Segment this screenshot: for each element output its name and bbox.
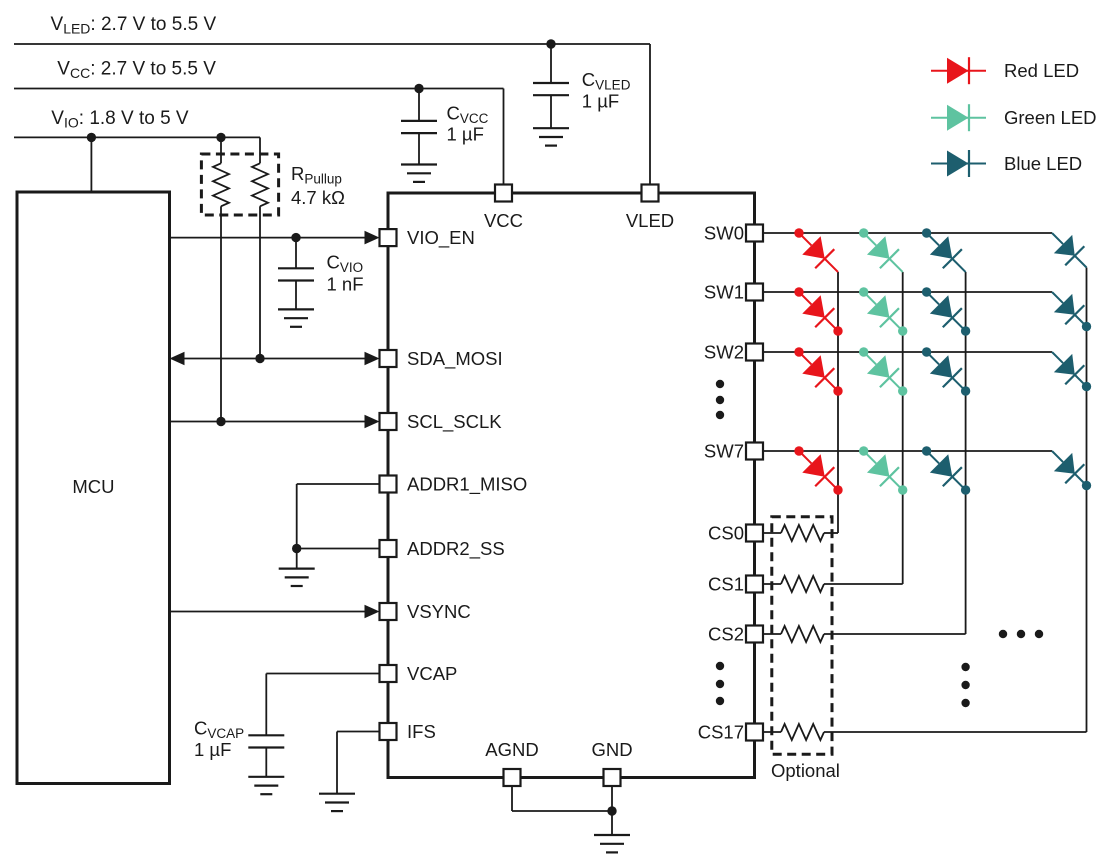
net VIO rail wire: [14, 136, 260, 138]
node SW2 green cathode: [898, 386, 907, 395]
wire VIO_EN from MCU: [170, 237, 366, 239]
svg-text:CS1: CS1: [708, 574, 744, 595]
svg-text:Optional: Optional: [771, 760, 840, 781]
svg-text:SW7: SW7: [704, 441, 744, 462]
resistor CS0: [781, 525, 824, 541]
svg-text:SW0: SW0: [704, 223, 744, 244]
pin VSYNC: [380, 603, 397, 620]
green LED row SW1: [854, 282, 912, 340]
node SW1 blue anode: [922, 287, 931, 296]
pin CS2: [746, 626, 763, 643]
node R2 SDA junction: [255, 354, 264, 363]
green LED row SW2: [854, 342, 912, 400]
node SW0 blue anode: [922, 228, 931, 237]
dots SW2 to SW7 ellipsis: [716, 380, 724, 388]
wire CS1 to resistor: [763, 583, 781, 585]
svg-text:1 nF: 1 nF: [327, 274, 364, 295]
capacitor CVLED lead: [550, 44, 552, 83]
wire SW1 row: [763, 291, 1052, 293]
resistor CS2: [781, 626, 824, 642]
capacitor CVCC lead: [418, 89, 420, 121]
wire VCAP down to CVCAP: [265, 674, 267, 736]
ground below CVCC: [401, 163, 437, 165]
svg-text:RPullup: RPullup: [291, 163, 342, 187]
red LED row SW0: [789, 223, 847, 281]
pin SCL_SCLK: [380, 413, 397, 430]
node SW1 far blue cathode: [1082, 322, 1091, 331]
wire SDA_MOSI bidirectional: [184, 358, 365, 360]
resistor R2 pullup lead top: [259, 137, 261, 163]
node SW1 green cathode: [898, 326, 907, 335]
wire VLED rail to VLED pin: [649, 44, 651, 185]
wire resistor CS0 to column: [824, 532, 838, 534]
wire IFS down to ground: [336, 732, 338, 794]
wire R2 to SDA_MOSI: [259, 206, 261, 358]
node SW7 blue cathode: [961, 485, 970, 494]
wire resistor CS1 to column: [824, 583, 903, 585]
wire CS2 to resistor: [763, 633, 781, 635]
wire VIO rail to MCU: [90, 137, 92, 192]
ground below CVIO: [278, 308, 314, 310]
node SW0 green anode: [859, 228, 868, 237]
svg-text:Red LED: Red LED: [1004, 60, 1079, 81]
svg-text:SW1: SW1: [704, 282, 744, 303]
wire CS0 to resistor: [763, 532, 781, 534]
ground below IFS: [319, 793, 355, 795]
wire ADDR junction to ground: [296, 549, 298, 569]
pin GND: [604, 769, 621, 786]
ground below GND: [594, 834, 630, 836]
arrow into VIO_EN: [365, 231, 380, 245]
wire CS17 to resistor: [763, 731, 781, 733]
node SW2 blue anode: [922, 347, 931, 356]
svg-text:ADDR2_SS: ADDR2_SS: [407, 538, 505, 560]
svg-text:CVIO: CVIO: [327, 252, 364, 276]
node SW0 red anode: [794, 228, 803, 237]
wire ADDR2_SS: [297, 548, 380, 550]
svg-text:CS0: CS0: [708, 523, 744, 544]
net VLED rail wire: [14, 43, 650, 45]
wire resistor CS2 to column: [824, 633, 966, 635]
capacitor CVCAP lead lower: [265, 748, 267, 777]
pin CS17: [746, 724, 763, 741]
svg-text:VCAP: VCAP: [407, 663, 457, 684]
node SW2 red cathode: [833, 386, 842, 395]
wire VCC rail to VCC pin: [503, 89, 505, 185]
capacitor CVIO lead lower: [295, 281, 297, 310]
svg-text:SDA_MOSI: SDA_MOSI: [407, 348, 503, 370]
dots below blue column ellipsis: [961, 663, 969, 671]
svg-text:CVLED: CVLED: [582, 69, 631, 93]
svg-text:VLED: VLED: [626, 210, 674, 231]
svg-text:VLED: 2.7 V to 5.5 V: VLED: 2.7 V to 5.5 V: [51, 14, 217, 37]
node SW2 blue cathode: [961, 386, 970, 395]
wire VSYNC: [170, 611, 366, 613]
pin SDA_MOSI: [380, 350, 397, 367]
blue LED row SW7: [917, 441, 975, 499]
svg-text:AGND: AGND: [485, 739, 538, 760]
svg-text:CS2: CS2: [708, 624, 744, 645]
wire AGND to GND net: [512, 810, 612, 812]
svg-text:VCC: 2.7 V to 5.5 V: VCC: 2.7 V to 5.5 V: [57, 59, 216, 82]
wire SW0 row: [763, 232, 1052, 234]
blue LED row SW0: [917, 223, 975, 281]
svg-text:Green LED: Green LED: [1004, 107, 1097, 128]
svg-text:SCL_SCLK: SCL_SCLK: [407, 411, 502, 433]
pin IFS: [380, 723, 397, 740]
pin CS0: [746, 525, 763, 542]
node ADDR junction: [292, 544, 301, 553]
node SW1 red anode: [794, 287, 803, 296]
node VLED tap junction: [546, 39, 555, 48]
pin VLED: [642, 185, 659, 202]
pin VCAP: [380, 665, 397, 682]
svg-text:1 µF: 1 µF: [582, 91, 619, 112]
svg-text:GND: GND: [591, 739, 632, 760]
svg-text:IFS: IFS: [407, 721, 436, 742]
net VCC rail wire: [14, 88, 504, 90]
svg-text:VIO: 1.8 V to 5 V: VIO: 1.8 V to 5 V: [51, 108, 189, 131]
wire SW7 row: [763, 450, 1052, 452]
node SW7 red anode: [794, 446, 803, 455]
wire green LED column: [902, 272, 904, 584]
node SW2 red anode: [794, 347, 803, 356]
pin ADDR2_SS: [380, 540, 397, 557]
pin SW2: [746, 344, 763, 361]
node R1 SCL junction: [216, 417, 225, 426]
svg-text:CVCAP: CVCAP: [194, 718, 244, 742]
node VIO to MCU junction: [87, 133, 96, 142]
node SW7 green anode: [859, 446, 868, 455]
node SW1 green anode: [859, 287, 868, 296]
capacitor CVIO: [278, 267, 314, 269]
svg-text:SW2: SW2: [704, 342, 744, 363]
ground below ADDR: [279, 567, 315, 569]
far blue LED row SW1: [1042, 282, 1096, 336]
wire SW2 row: [763, 351, 1052, 353]
wire blue LED column: [965, 272, 967, 634]
svg-text:CVCC: CVCC: [447, 103, 489, 127]
pin AGND: [504, 769, 521, 786]
arrow into MCU SDA_MOSI: [170, 352, 185, 366]
ground below CVLED: [533, 127, 569, 129]
far blue LED row SW0: [1042, 223, 1096, 277]
svg-text:VSYNC: VSYNC: [407, 601, 471, 622]
wire VCAP: [266, 673, 379, 675]
svg-text:1 µF: 1 µF: [194, 739, 231, 760]
dashed box optional resistors: [772, 517, 832, 755]
pin VIO_EN: [380, 229, 397, 246]
capacitor CVLED: [533, 82, 569, 84]
capacitor CVCC lead lower: [418, 133, 420, 164]
dots more columns ellipsis: [999, 630, 1007, 638]
wire red LED column: [837, 272, 839, 533]
red LED row SW7: [789, 441, 847, 499]
green LED row SW0: [854, 223, 912, 281]
svg-text:1 µF: 1 µF: [447, 124, 484, 145]
green LED row SW7: [854, 441, 912, 499]
svg-text:ADDR1_MISO: ADDR1_MISO: [407, 474, 527, 496]
dashed box around RPullup: [201, 154, 278, 215]
wire R1 to SCL_SCLK: [220, 206, 222, 421]
far blue LED row SW2: [1042, 342, 1096, 396]
arrow into SCL_SCLK: [365, 415, 380, 429]
far blue LED row SW7: [1042, 441, 1096, 495]
pin SW7: [746, 443, 763, 460]
svg-text:Blue LED: Blue LED: [1004, 153, 1082, 174]
resistor CS1: [781, 576, 824, 592]
arrow into SDA_MOSI: [365, 352, 380, 366]
wire resistor CS17 to column: [824, 731, 1087, 733]
legend blue LED symbol: [931, 163, 986, 165]
node CVIO tap junction: [291, 233, 300, 242]
wire ADDR1 down to ADDR2: [296, 484, 298, 549]
capacitor CVCC: [401, 120, 437, 122]
svg-text:4.7 kΩ: 4.7 kΩ: [291, 187, 345, 208]
resistor R1 pullup: [213, 163, 229, 206]
pin SW0: [746, 225, 763, 242]
blue LED row SW2: [917, 342, 975, 400]
block LED driver IC: [388, 193, 755, 778]
svg-text:CS17: CS17: [698, 722, 744, 743]
node SW2 green anode: [859, 347, 868, 356]
ground below CVCAP: [248, 776, 284, 778]
block MCU: [17, 192, 170, 784]
dots CS2 to CS17 ellipsis: [716, 662, 724, 670]
capacitor CVCAP: [248, 734, 284, 736]
pin SW1: [746, 284, 763, 301]
wire GND down to ground: [611, 786, 613, 835]
capacitor CVIO lead: [295, 238, 297, 269]
wire IFS: [337, 731, 380, 733]
resistor R2 pullup: [252, 163, 268, 206]
node SW7 green cathode: [898, 485, 907, 494]
blue LED row SW1: [917, 282, 975, 340]
wire far blue LED column: [1086, 268, 1088, 733]
resistor CS17: [781, 724, 824, 740]
arrow into VSYNC: [365, 605, 380, 619]
resistor R1 pullup lead top: [220, 137, 222, 163]
pin CS1: [746, 576, 763, 593]
node VIO to R1 junction: [216, 133, 225, 142]
node SW7 far blue cathode: [1082, 481, 1091, 490]
wire AGND down: [511, 786, 513, 811]
red LED row SW1: [789, 282, 847, 340]
node SW1 red cathode: [833, 326, 842, 335]
node SW1 blue cathode: [961, 326, 970, 335]
node SW7 blue anode: [922, 446, 931, 455]
node AGND GND junction: [607, 806, 616, 815]
node VCC tap junction: [414, 84, 423, 93]
pin VCC: [495, 185, 512, 202]
legend green LED symbol: [931, 117, 986, 119]
wire ADDR1_MISO: [297, 483, 380, 485]
node SW7 red cathode: [833, 485, 842, 494]
red LED row SW2: [789, 342, 847, 400]
wire SCL_SCLK: [170, 421, 366, 423]
capacitor CVLED lead lower: [550, 95, 552, 128]
node SW2 far blue cathode: [1082, 382, 1091, 391]
svg-text:VIO_EN: VIO_EN: [407, 227, 475, 249]
svg-text:MCU: MCU: [72, 476, 114, 497]
pin ADDR1_MISO: [380, 476, 397, 493]
legend red LED symbol: [931, 70, 986, 72]
svg-text:VCC: VCC: [484, 210, 523, 231]
